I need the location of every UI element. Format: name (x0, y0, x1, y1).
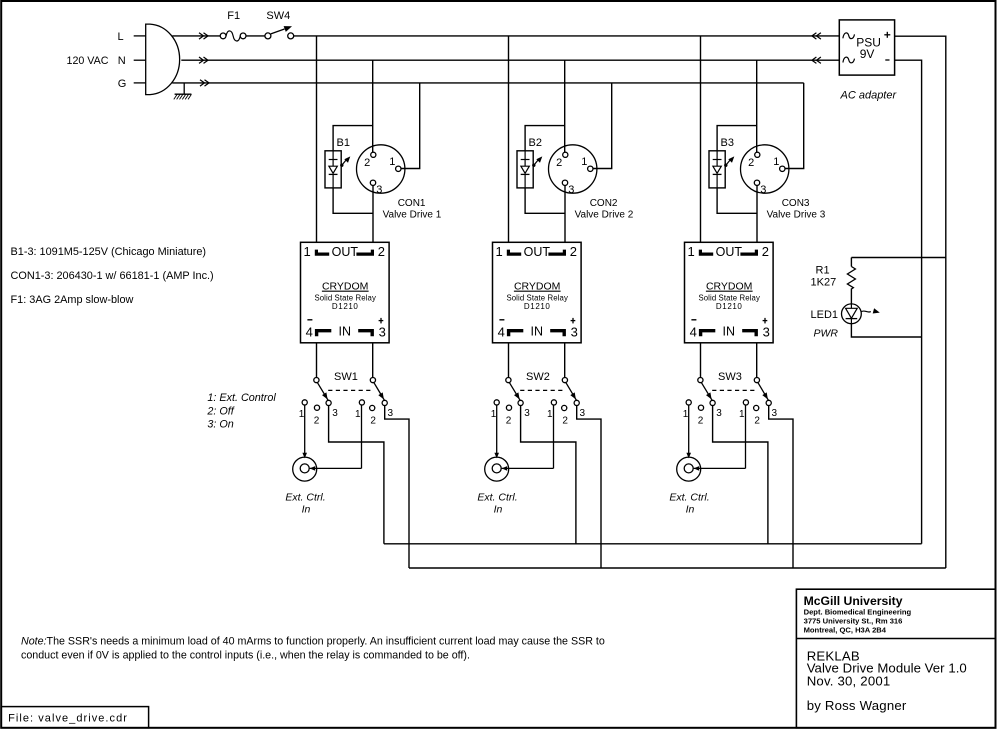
wire SW1 pole B pin 3 to +9V bus (385, 405, 409, 568)
U2 type label (506, 293, 568, 311)
ground (174, 83, 192, 100)
cable chevrons into PSU on L (812, 33, 821, 39)
svg-text:3: On: 3: On (207, 419, 233, 431)
wire SW1 pole A pin 1 to ext ctrl jack (302, 405, 307, 459)
svg-text:3: 3 (580, 408, 586, 419)
svg-text:1: Ext. Control: 1: Ext. Control (207, 392, 276, 404)
SW3 pole B position numbers (739, 408, 778, 426)
U1 pin 1 terminal (303, 244, 329, 259)
PSU + terminal (884, 32, 890, 38)
lamp B2 (517, 151, 542, 188)
svg-text:SW1: SW1 (334, 371, 358, 383)
wire -9V bottom bus (384, 543, 922, 545)
U3 type label (698, 293, 760, 311)
wire lamp B3 top (717, 126, 757, 151)
U2 pin 2 terminal (548, 244, 577, 259)
svg-text:2: 2 (370, 415, 376, 426)
svg-text:120 VAC: 120 VAC (67, 55, 109, 67)
wire ext ctrl jack tip to SW2 pole B pin 1 (502, 405, 554, 471)
cable chevrons on G (200, 80, 209, 86)
svg-text:B1: B1 (337, 137, 350, 149)
svg-text:B1-3: 1091M5-125V (Chicago Min: B1-3: 1091M5-125V (Chicago Miniature) (11, 246, 207, 258)
svg-text:Montreal, QC, H3A 2B4: Montreal, QC, H3A 2B4 (804, 625, 887, 634)
svg-text:Ext. Ctrl.: Ext. Ctrl. (669, 492, 709, 504)
svg-text:1: 1 (547, 409, 553, 420)
fuse F1 (220, 31, 246, 41)
wire lamp B3 bottom (717, 188, 757, 213)
SW1 pole A position numbers (299, 408, 339, 426)
svg-text:B3: B3 (721, 137, 734, 149)
svg-text:IN: IN (531, 325, 544, 339)
wire G line (172, 82, 804, 84)
connector CON3 (741, 145, 789, 193)
LED LED1 (842, 304, 862, 324)
U3 pin 3 (+) terminal (742, 318, 770, 340)
wire L to U3 OUT pin 1 (700, 36, 702, 242)
svg-text:conduct even if 0V is applied: conduct even if 0V is applied to the con… (21, 650, 470, 662)
svg-text:1: 1 (683, 409, 689, 420)
svg-text:OUT: OUT (716, 245, 743, 259)
wire SW2 pole B pin 3 to +9V bus (577, 405, 601, 568)
wire PSU + to +9V rail (895, 36, 946, 568)
svg-text:3: 3 (568, 184, 574, 196)
svg-text:3: 3 (716, 408, 722, 419)
svg-text:IN: IN (723, 325, 736, 339)
label Ext. Ctrl. In 2 (477, 492, 517, 516)
svg-text:McGill University: McGill University (804, 594, 903, 608)
svg-text:2: Off: 2: Off (206, 406, 234, 418)
cable chevrons on N (199, 57, 208, 63)
label Ext. Ctrl. In 1 (285, 492, 325, 516)
svg-text:2: 2 (506, 415, 512, 426)
svg-text:Solid State Relay: Solid State Relay (314, 293, 376, 302)
wire U1 pin 4 to SW1 pole A (316, 343, 318, 378)
wire R1 top to +9V rail (851, 257, 945, 259)
U3 pin 4 (-) terminal (690, 320, 716, 340)
svg-text:2: 2 (556, 157, 562, 169)
label Ext. Ctrl. In 3 (669, 492, 709, 516)
SW3 pole A position numbers (683, 408, 723, 426)
lamp B3 (709, 151, 734, 188)
wire lamp B1 top (333, 126, 373, 151)
svg-text:2: 2 (562, 415, 568, 426)
svg-text:1: 1 (299, 409, 305, 420)
svg-text:G: G (118, 78, 127, 90)
svg-text:F1: 3AG 2Amp slow-blow: F1: 3AG 2Amp slow-blow (11, 294, 134, 306)
U1 CRYDOM brand label (322, 280, 369, 292)
svg-text:4: 4 (306, 325, 313, 340)
wire U1 pin 3 to SW1 pole B (372, 343, 374, 378)
svg-text:In: In (686, 504, 695, 516)
wire SW2 pole A pin 3 to -9V bus (521, 405, 576, 543)
svg-text:B2: B2 (529, 137, 542, 149)
switch position legend (206, 392, 276, 431)
svg-text:OUT: OUT (524, 245, 551, 259)
connector CON1 (357, 145, 405, 193)
wire CON3 pin 3 to U3 OUT pin 2 (756, 186, 758, 243)
U2 pin 3 (+) terminal (550, 318, 578, 340)
svg-text:D1210: D1210 (332, 302, 359, 311)
svg-text:Nov. 30, 2001: Nov. 30, 2001 (807, 673, 891, 688)
svg-text:2: 2 (754, 415, 760, 426)
wire +9V bottom bus (409, 567, 946, 569)
wire ext ctrl jack tip to SW3 pole B pin 1 (694, 405, 746, 471)
svg-text:R1: R1 (816, 265, 830, 277)
svg-text:In: In (302, 504, 311, 516)
svg-text:2: 2 (364, 157, 370, 169)
svg-text:3: 3 (763, 325, 770, 340)
svg-text:D1210: D1210 (524, 302, 551, 311)
svg-text:1K27: 1K27 (811, 277, 837, 289)
U3 CRYDOM brand label (706, 280, 753, 292)
wire N line (181, 59, 839, 61)
SW2 pole A position numbers (491, 408, 531, 426)
svg-text:1: 1 (491, 409, 497, 420)
wire SW3 pole B pin 3 to +9V bus (769, 405, 793, 568)
wire CON3 pin 1 to G (785, 83, 804, 169)
svg-text:2: 2 (314, 415, 320, 426)
label R1 1K27 (811, 265, 837, 289)
title block project title (807, 649, 967, 689)
svg-text:Valve Drive 1: Valve Drive 1 (383, 210, 442, 221)
svg-text:3: 3 (332, 408, 338, 419)
svg-text:CON1: CON1 (398, 198, 426, 209)
wire lamp B2 bottom (525, 188, 565, 213)
U3 pin 1 terminal (687, 244, 713, 259)
svg-text:1: 1 (773, 156, 779, 168)
U2 CRYDOM brand label (514, 280, 561, 292)
svg-text:2: 2 (378, 244, 385, 259)
wire ext ctrl jack tip to SW1 pole B pin 1 (310, 405, 362, 471)
connector P1 120 VAC inlet (146, 24, 180, 95)
svg-text:OUT: OUT (332, 245, 359, 259)
svg-text:Dept. Biomedical Engineering: Dept. Biomedical Engineering (804, 607, 912, 616)
wire SW3 pole A pin 3 to -9V bus (713, 405, 768, 543)
svg-text:CON2: CON2 (590, 198, 618, 209)
svg-text:4: 4 (498, 325, 505, 340)
svg-text:4: 4 (690, 325, 697, 340)
svg-text:1: 1 (389, 156, 395, 168)
wire N to CON1 pin 2 (372, 60, 374, 152)
wire L line left segment (172, 35, 220, 37)
wire CON2 pin 1 to G (593, 83, 612, 169)
svg-text:3: 3 (772, 408, 778, 419)
wire lamp B1 bottom (333, 188, 373, 213)
U1 pin 3 (+) terminal (358, 318, 386, 340)
switch SW3 (686, 378, 771, 411)
wire L to U1 OUT pin 1 (316, 36, 318, 242)
wire N to CON3 pin 2 (756, 60, 758, 152)
svg-text:3: 3 (379, 325, 386, 340)
svg-text:F1: F1 (227, 10, 240, 22)
svg-text:2: 2 (698, 415, 704, 426)
U3 pin 2 terminal (740, 244, 769, 259)
title block frame (796, 589, 995, 728)
svg-text:1: 1 (355, 409, 361, 420)
U1 type label (314, 293, 376, 311)
svg-text:1: 1 (581, 156, 587, 168)
svg-text:3: 3 (388, 408, 394, 419)
wire U3 pin 3 to SW3 pole B (756, 343, 758, 378)
U1 pin 4 (-) terminal (306, 320, 332, 340)
wire PSU - to -9V rail (895, 60, 922, 544)
wire U3 pin 4 to SW3 pole A (700, 343, 702, 378)
wire U2 pin 4 to SW2 pole A (508, 343, 510, 378)
file name box (1, 707, 148, 728)
svg-text:N: N (118, 55, 126, 67)
switch SW4 (265, 26, 294, 39)
svg-text:Valve Drive 2: Valve Drive 2 (575, 210, 634, 221)
svg-text:3: 3 (376, 184, 382, 196)
U1 pin 2 terminal (356, 244, 385, 259)
svg-text:CON3: CON3 (782, 198, 810, 209)
svg-text:1: 1 (495, 244, 502, 259)
PSU - terminal (885, 59, 889, 61)
svg-text:3: 3 (760, 184, 766, 196)
cable chevrons on L (199, 33, 208, 39)
svg-text:File: valve_drive.cdr: File: valve_drive.cdr (8, 712, 128, 724)
wire lamp B2 top (525, 126, 565, 151)
svg-text:9V: 9V (860, 47, 875, 61)
svg-text:3775 University St., Rm 316: 3775 University St., Rm 316 (804, 617, 903, 626)
svg-text:AC adapter: AC adapter (840, 90, 898, 102)
wire L to U2 OUT pin 1 (508, 36, 510, 242)
wire L between F1 and SW4 (246, 35, 265, 37)
solid state relay U3 CRYDOM D1210 (685, 242, 774, 342)
wire L line to PSU (294, 35, 840, 37)
svg-text:Note:The SSR's needs a minimum: Note:The SSR's needs a minimum load of 4… (21, 635, 605, 647)
svg-text:1: 1 (687, 244, 694, 259)
U2 pin 4 (-) terminal (498, 320, 524, 340)
svg-text:1: 1 (303, 244, 310, 259)
svg-text:2: 2 (570, 244, 577, 259)
svg-text:3: 3 (524, 408, 530, 419)
SW2 pole B position numbers (547, 408, 586, 426)
SW1 pole B position numbers (355, 408, 394, 426)
connector CON2 (549, 145, 597, 193)
title block university address (804, 594, 912, 634)
switch SW2 (494, 378, 579, 411)
svg-text:2: 2 (748, 157, 754, 169)
svg-text:SW3: SW3 (718, 371, 742, 383)
svg-text:1: 1 (739, 409, 745, 420)
svg-text:Solid State Relay: Solid State Relay (698, 293, 760, 302)
svg-text:L: L (118, 31, 124, 43)
stub wires L N G into inlet (134, 36, 146, 83)
U2 pin 1 terminal (495, 244, 521, 259)
svg-text:Valve Drive 3: Valve Drive 3 (767, 210, 826, 221)
svg-text:PWR: PWR (814, 328, 839, 340)
svg-text:Ext. Ctrl.: Ext. Ctrl. (285, 492, 325, 504)
wire SW1 pole A pin 3 to -9V bus (329, 405, 384, 543)
power supply PSU 9V (AC adapter) (839, 20, 894, 75)
svg-text:In: In (494, 504, 503, 516)
resistor R1 (847, 258, 855, 305)
svg-text:CON1-3: 206430-1 w/ 66181-1 (A: CON1-3: 206430-1 w/ 66181-1 (AMP Inc.) (11, 270, 214, 282)
LED1 indicator arrow (861, 308, 880, 313)
wire SW2 pole A pin 1 to ext ctrl jack (494, 405, 499, 459)
svg-text:3: 3 (571, 325, 578, 340)
wire N to CON2 pin 2 (564, 60, 566, 152)
svg-text:2: 2 (762, 244, 769, 259)
connector J2 Ext Ctrl In (485, 457, 509, 481)
solid state relay U2 CRYDOM D1210 (493, 242, 582, 342)
label PSU 9V (856, 36, 881, 62)
wire CON1 pin 3 to U1 OUT pin 2 (372, 186, 374, 243)
switch SW1 (302, 378, 387, 411)
connector J3 Ext Ctrl In (677, 457, 701, 481)
svg-text:SW2: SW2 (526, 371, 550, 383)
wire LED1 to -9V rail (851, 324, 921, 337)
wire CON1 pin 1 to G (401, 83, 420, 169)
svg-text:by Ross Wagner: by Ross Wagner (807, 698, 907, 713)
svg-text:Solid State Relay: Solid State Relay (506, 293, 568, 302)
svg-text:D1210: D1210 (716, 302, 743, 311)
solid state relay U1 CRYDOM D1210 (301, 242, 390, 342)
wire SW3 pole A pin 1 to ext ctrl jack (686, 405, 691, 459)
lamp B1 (325, 151, 350, 188)
svg-text:SW4: SW4 (266, 10, 290, 22)
cable chevrons into PSU on N (812, 57, 821, 63)
wire U2 pin 3 to SW2 pole B (564, 343, 566, 378)
svg-text:IN: IN (339, 325, 352, 339)
connector J1 Ext Ctrl In (293, 457, 317, 481)
svg-text:Ext. Ctrl.: Ext. Ctrl. (477, 492, 517, 504)
wire CON2 pin 3 to U2 OUT pin 2 (564, 186, 566, 243)
svg-text:LED1: LED1 (811, 309, 839, 321)
